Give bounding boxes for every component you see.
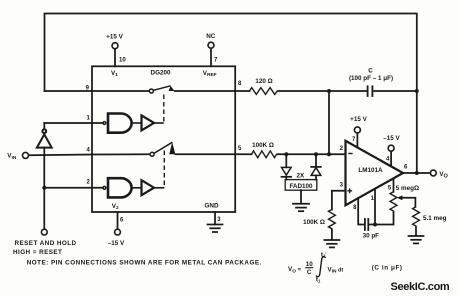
svg-text:7: 7	[214, 57, 218, 63]
svg-text:100K Ω: 100K Ω	[303, 219, 325, 226]
svg-text:V2: V2	[112, 203, 119, 211]
svg-text:C: C	[307, 269, 312, 276]
svg-text:C: C	[368, 68, 373, 75]
svg-text:HIGH = RESET: HIGH = RESET	[13, 249, 62, 256]
svg-text:10: 10	[306, 261, 314, 268]
svg-text:+15 V: +15 V	[350, 116, 367, 123]
svg-text:3: 3	[340, 182, 344, 188]
svg-text:1: 1	[86, 116, 90, 122]
svg-text:VO: VO	[439, 171, 447, 180]
svg-text:+15 V: +15 V	[106, 34, 123, 41]
svg-text:8: 8	[353, 205, 357, 211]
svg-text:LM101A: LM101A	[358, 167, 383, 174]
svg-text:1: 1	[371, 196, 375, 202]
svg-text:SeekIC.com: SeekIC.com	[391, 281, 450, 293]
svg-text:6: 6	[404, 165, 408, 171]
svg-text:t1: t1	[316, 277, 321, 284]
svg-text:RESET AND HOLD: RESET AND HOLD	[15, 240, 77, 247]
svg-text:2: 2	[86, 179, 90, 185]
svg-text:FAD100: FAD100	[289, 183, 313, 190]
svg-text:4: 4	[386, 157, 390, 163]
svg-text:–15 V: –15 V	[383, 135, 400, 142]
svg-text:2: 2	[340, 146, 344, 152]
svg-text:NOTE: PIN CONNECTIONS SHOWN AR: NOTE: PIN CONNECTIONS SHOWN ARE FOR META…	[27, 259, 262, 266]
svg-text:5: 5	[238, 146, 242, 152]
svg-text:VREF: VREF	[203, 70, 217, 78]
svg-text:DG200: DG200	[151, 70, 171, 77]
svg-text:5.1 meg: 5.1 meg	[423, 215, 447, 222]
svg-text:100K Ω: 100K Ω	[252, 142, 274, 149]
svg-text:VIN dt: VIN dt	[328, 266, 344, 274]
svg-text:10: 10	[119, 57, 126, 63]
svg-text:7: 7	[352, 137, 356, 143]
svg-text:VO =: VO =	[288, 266, 301, 273]
svg-text:(100 pF – 1 μF): (100 pF – 1 μF)	[349, 75, 393, 82]
svg-text:2X: 2X	[297, 173, 306, 180]
svg-text:5 megΩ: 5 megΩ	[396, 185, 419, 192]
svg-text:V1: V1	[111, 70, 118, 78]
svg-text:120 Ω: 120 Ω	[255, 78, 272, 85]
svg-text:6: 6	[120, 217, 124, 223]
svg-text:3: 3	[217, 217, 221, 223]
svg-text:NC: NC	[206, 33, 216, 40]
svg-text:8: 8	[238, 81, 242, 87]
svg-text:(C in μF): (C in μF)	[372, 265, 403, 272]
svg-text:–15 V: –15 V	[108, 240, 125, 247]
svg-text:5: 5	[388, 186, 392, 192]
svg-text:4: 4	[86, 148, 90, 154]
svg-text:30 pF: 30 pF	[363, 233, 380, 240]
svg-text:GND: GND	[205, 203, 219, 210]
svg-text:VIN: VIN	[7, 153, 17, 161]
